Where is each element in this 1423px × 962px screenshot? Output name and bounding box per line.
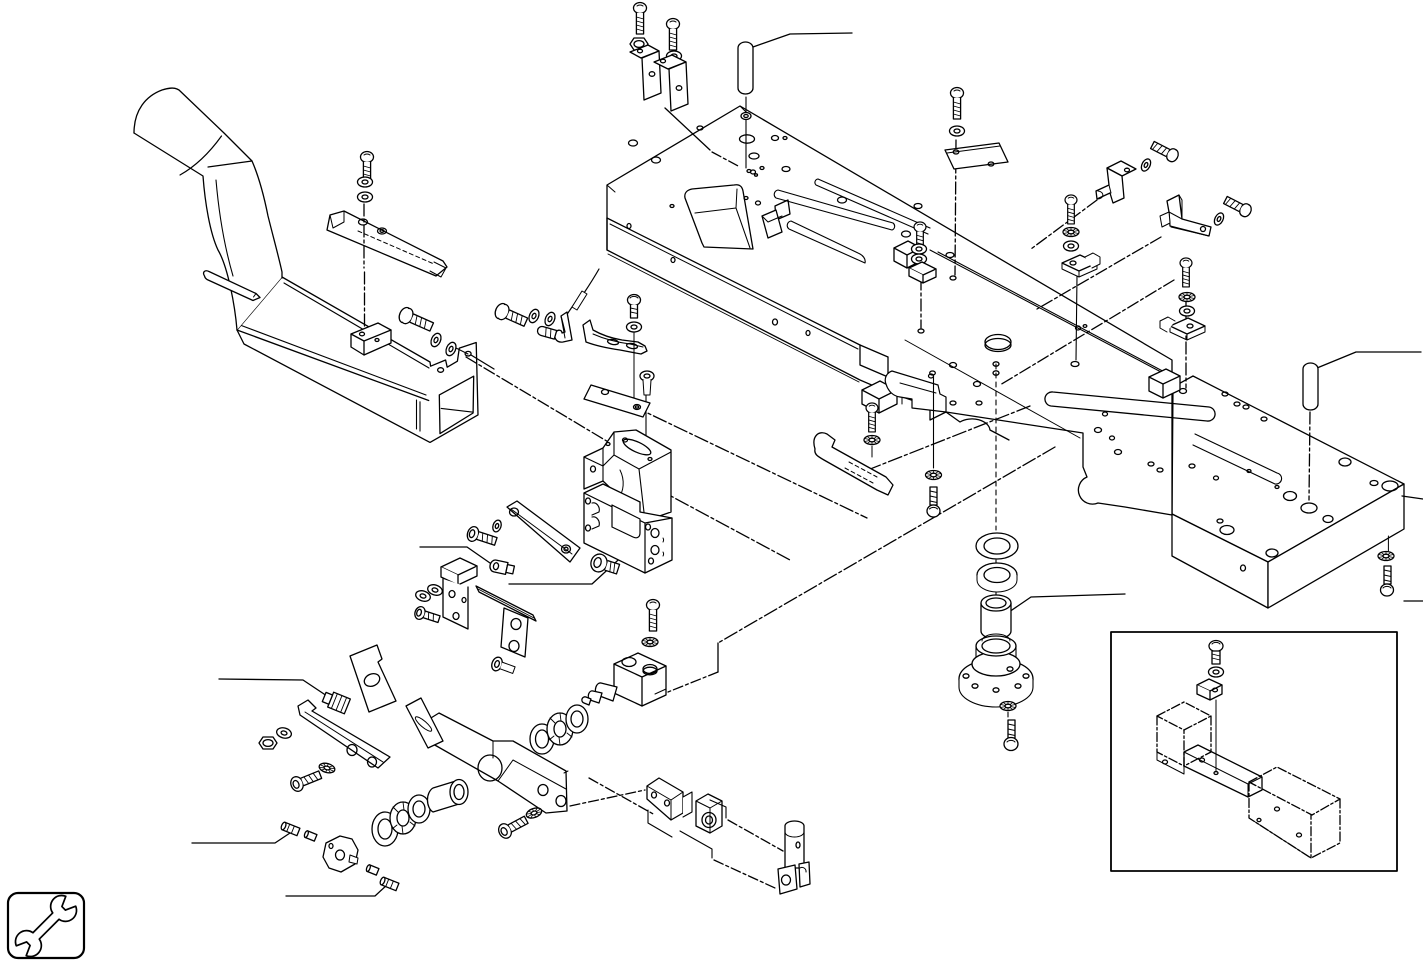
chain pin2 to slab hole [1309,412,1310,500]
washer ring 1 right stack [976,533,1018,559]
L bracket lower [441,558,477,629]
step lines T cluster [648,800,726,858]
frame axis small circles [930,362,999,375]
shoulder screw small [489,559,515,576]
bracket top 2 [654,55,688,111]
inset washer [1209,667,1224,677]
vertical line plate screw [645,383,647,480]
base slab front face [1172,514,1268,608]
washer near trough a [429,332,443,348]
frame raised block right [1149,369,1180,398]
countersunk screw plate [640,371,654,395]
base slab right face [1268,484,1404,608]
leader bottom pin2 [286,884,388,896]
trough mount block [351,323,391,355]
frame rib mid [774,190,894,230]
cable washer a [527,308,541,324]
roller rings left [372,795,430,846]
chain cover plate to trough [363,204,366,328]
slab screw axis line [1387,536,1389,551]
frame boss with tab [744,197,790,239]
star washer eccentric [642,638,658,647]
upper link plate [406,698,443,748]
wrench icon frame [8,893,84,958]
dashed axis washer stack [996,364,1008,718]
screw stack mid [951,88,964,120]
frame fence wall [685,185,753,249]
frame jaw tongue [885,371,946,412]
bracket top 1 [630,45,661,100]
frame jaw axis line [933,376,935,468]
washer top right 2 [1212,211,1225,226]
frame top deck near edge [607,218,930,398]
cover plate washer 2 [358,192,373,202]
leader bottom small pin [192,829,296,843]
frame right end capsule slot [1045,392,1215,421]
screw slab bottom right [1378,552,1394,597]
chain arm to T bracket [570,778,655,815]
countersunk screw bottom [490,656,516,677]
axis clamp stack3 [1076,276,1077,360]
trough near rail [237,325,429,401]
main arm [426,713,568,813]
leader knurl pin [219,679,330,698]
clamp stack2 [909,262,936,283]
washer top right 1 [1139,157,1152,172]
bent arm bracket [583,320,647,354]
washer stack3 b [1064,241,1079,251]
cable washer b [543,311,557,327]
button head screw [589,552,621,578]
washer bottom [275,726,292,740]
scoop bracket [814,433,893,495]
washer stack4 a [1179,293,1195,302]
clamp stack4 [1160,317,1205,340]
chain top-right bracket1 [1031,200,1097,249]
screw clamp stack3 [1065,195,1077,224]
washer stack3 a [1063,228,1079,237]
chain T bracket to pin [714,820,783,888]
washer top B [667,51,682,61]
leader right edge lower [1404,600,1423,602]
top right bracket1 [1096,161,1136,203]
inset cube base [1157,752,1184,774]
duct creases [180,136,252,276]
pin axis line [745,97,747,168]
washers left of L bracket [414,583,443,603]
washer below screw [627,322,642,332]
star washer hub [1000,702,1016,711]
trough far rail inner [233,276,429,368]
washer stack4 b [1180,306,1195,316]
roller cylinder [427,780,468,813]
screw horizontal near trough end [397,306,435,335]
lever bar [298,700,390,768]
cable curve [566,269,599,316]
chain screw stack to frame [955,140,956,275]
pin dowel right [1303,363,1318,410]
screw clamp stack4 [1180,258,1192,287]
cable screw axis [633,332,635,403]
tilted cover plate [507,501,580,562]
inset block solid edges [1249,807,1311,858]
wrench icon [12,892,81,961]
hex block octagon [323,836,358,872]
frame left end face line [606,218,608,250]
cover plate screw [361,152,374,184]
chain clamp stack2 [920,278,922,328]
small plate with screw [584,385,650,417]
thin blade strip [476,586,536,621]
bushing cylinder [981,595,1011,639]
leader bushing [1009,594,1125,612]
flag plate [350,645,396,712]
vertical screw cable cluster [628,295,641,319]
pin fork bracket left plate [778,865,797,894]
lower plate bracket [501,608,528,657]
screw above scoop [866,403,878,432]
washer stack2 a [912,244,927,254]
washer left of plate [491,519,502,533]
leader pin2 top right [1317,352,1421,368]
leader button screw [509,539,641,584]
frame lower deck zigzag pocket [888,377,1009,440]
eccentric block [614,653,666,706]
washer stack2 b [912,254,927,264]
inset screw [1209,641,1223,665]
inset border [1111,632,1397,871]
flanged hub [959,634,1033,707]
frame main body outline [607,106,1172,515]
screw below hub [1004,720,1018,751]
set screw small [536,325,556,339]
chain top bracket leader [665,108,764,174]
inset rail bar [1184,745,1262,797]
inset left cube [1157,702,1211,766]
cable screw horizontal [493,302,529,330]
cover plate above trough [327,211,447,277]
inset clamp [1197,679,1222,700]
chain trough to block cluster [466,357,610,443]
lower block assembly [584,484,672,573]
slab slot B [1193,434,1282,484]
pin dowel top [738,42,753,94]
base slab top face [1172,376,1404,562]
chain frame axis long [612,396,867,518]
screw above eccentric [647,600,660,632]
frame rib top [815,179,930,234]
thrust rings right [530,705,588,754]
washer ring 2 right stack [977,563,1017,592]
chain frame axis lower [615,466,790,560]
small pin c [366,864,379,875]
chain clamp stack4 [1185,300,1187,388]
trough channel body [237,277,478,442]
knurled pin [321,690,350,714]
screw top right 1 [1149,139,1180,163]
frame front face small holes [627,224,810,336]
base slab small oval marks [1222,392,1267,421]
small pin d [379,877,399,891]
inset screw axis [1214,700,1218,775]
small pin a [280,822,300,836]
screw top right 2 [1222,194,1253,218]
hex nut bottom [259,737,277,749]
frame top face holes [629,126,955,258]
washer stack mid [950,126,965,136]
inset right block [1249,767,1340,858]
small pin b [304,830,317,841]
upper block assembly [584,430,671,521]
chain slab diagonal with step [668,447,1055,692]
nut top [630,38,648,50]
frame riser blocks center [862,241,921,413]
duct body [134,88,282,330]
base slab holes [1189,458,1398,571]
frame right rail pair [930,250,1180,382]
chain upper diagonal [855,406,1030,475]
socket screw left of plate [465,525,498,548]
top right bracket2 [1160,195,1211,236]
star washer jaw axis [926,471,942,480]
star washer arm right [525,806,543,820]
screw arm right [496,813,530,840]
leader pin top [753,33,852,47]
leader from ear hole [452,346,494,369]
leader right edge mid [1402,496,1423,499]
star washer scoop [864,436,880,458]
washer near trough b [444,341,458,357]
frame interior step lines [607,106,1080,438]
pin fork bracket right plate [799,862,810,887]
clamp stack3 [1062,253,1100,277]
screw top A [634,3,647,35]
pin cylinder bottom [785,821,804,868]
screw top B [667,19,680,51]
star washer bottom [318,762,336,775]
frame big round hole [985,335,1011,352]
cover plate washer 1 [358,177,373,187]
thin slide strip [204,271,260,301]
cable clamp clip [555,312,572,342]
eccentric shaft [582,683,617,705]
screw jaw axis [927,487,940,517]
frame rib bottom [787,221,865,263]
T bracket bottom [647,778,722,833]
ring washer on frame [741,113,751,120]
frame lower deck holes [918,276,1187,472]
trough end ear holes [438,351,472,372]
trough end window [417,376,474,433]
leader shoulder screw [420,547,490,563]
plate stack mid [945,143,1008,169]
chain top-right bracket2 [1000,237,1174,385]
frame big hole near peak [740,135,760,176]
screw stack2 [914,222,926,251]
socket screw bottom left [289,768,323,794]
screw below washers [413,605,441,625]
